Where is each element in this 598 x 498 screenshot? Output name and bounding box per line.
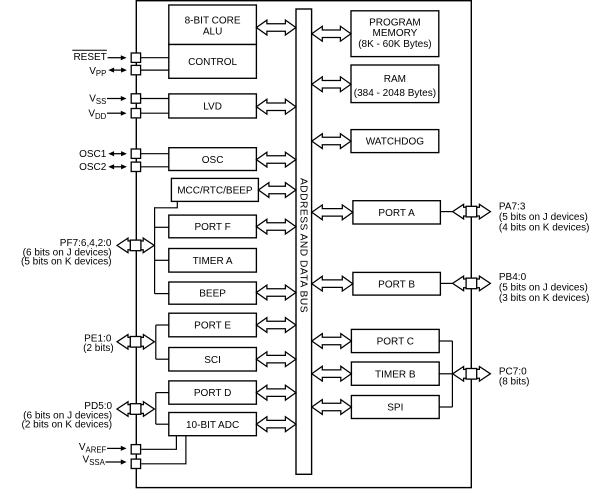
svg-text:(5 bits on J devices): (5 bits on J devices) xyxy=(499,212,588,223)
wire bracket stub to SCI xyxy=(156,358,169,360)
block PORT F xyxy=(169,215,257,238)
svg-text:RAM: RAM xyxy=(384,74,406,85)
pin VSSA xyxy=(131,459,140,468)
block TIMER A xyxy=(169,249,257,273)
wire bracket stub to PORT F xyxy=(155,226,169,228)
block PROGRAM MEMORY xyxy=(351,11,439,57)
wire bracket stub to BEEP xyxy=(155,293,169,295)
wire VPP pin to CONTROL xyxy=(141,69,169,71)
pin arrow PE1:0 xyxy=(117,335,154,350)
bus arrow PORT C xyxy=(312,334,352,349)
wire PORT A to PA pin arrow xyxy=(440,211,453,213)
svg-text:SCI: SCI xyxy=(204,355,221,366)
block OSC xyxy=(169,148,257,171)
block SPI xyxy=(351,396,439,419)
svg-text:PORT E: PORT E xyxy=(194,321,231,332)
bus arrow 10-BIT ADC xyxy=(256,417,296,432)
wire VAREF pin to ADC xyxy=(141,436,176,450)
svg-text:(3 bits on K devices): (3 bits on K devices) xyxy=(499,293,590,304)
label RESET xyxy=(72,50,107,63)
pin arrow PD5:0 xyxy=(117,402,154,417)
pin VSS xyxy=(131,94,140,103)
bus bar ADDRESS AND DATA BUS xyxy=(296,9,312,474)
wire VDD pin to LVD xyxy=(141,112,169,114)
svg-text:MCC/RTC/BEEP: MCC/RTC/BEEP xyxy=(177,186,253,197)
svg-text:LVD: LVD xyxy=(203,102,222,113)
svg-text:SPI: SPI xyxy=(387,402,403,413)
svg-text:PORT B: PORT B xyxy=(378,279,415,290)
svg-text:PORT A: PORT A xyxy=(378,208,415,219)
bus arrow MCC/RTC/BEEP xyxy=(258,183,296,198)
wire RESET pin to CONTROL xyxy=(141,57,169,59)
label PE1:0 xyxy=(83,334,114,354)
svg-text:PA7:3: PA7:3 xyxy=(499,202,526,213)
pin OSC1 xyxy=(131,149,140,158)
pin VDD xyxy=(131,109,140,118)
svg-text:BEEP: BEEP xyxy=(199,289,226,300)
block RAM xyxy=(351,65,439,103)
svg-text:(4 bits on K devices): (4 bits on K devices) xyxy=(499,222,590,233)
bus arrow WATCHDOG xyxy=(312,134,351,149)
svg-text:(5 bits on J devices): (5 bits on J devices) xyxy=(499,283,588,294)
arrow VDD xyxy=(107,112,122,114)
svg-text:ADDRESS AND DATA BUS: ADDRESS AND DATA BUS xyxy=(297,178,308,313)
arrow VSSA xyxy=(106,461,122,463)
svg-text:10-BIT ADC: 10-BIT ADC xyxy=(186,420,239,431)
bus arrow TIMER B xyxy=(312,366,352,381)
wire port C bracket vertical xyxy=(451,341,453,407)
pin VPP xyxy=(131,65,140,74)
svg-text:(2 bits on K devices): (2 bits on K devices) xyxy=(21,420,112,431)
bus arrow PROGRAM MEMORY xyxy=(312,26,351,41)
bus arrow SCI xyxy=(256,352,296,367)
bus arrow SPI xyxy=(312,400,352,415)
wire VSS pin to LVD xyxy=(141,98,169,100)
block TIMER B xyxy=(351,362,439,385)
bus arrow PORT A xyxy=(312,205,353,220)
wire OSC1 pin to OSC xyxy=(141,153,169,155)
wire OSC2 pin to OSC xyxy=(141,166,169,168)
svg-text:PROGRAM: PROGRAM xyxy=(369,18,421,29)
wire bracket stub to TIMER A xyxy=(155,259,169,261)
label PA7:3 xyxy=(499,202,590,234)
svg-text:TIMER A: TIMER A xyxy=(193,256,233,267)
block PORT B xyxy=(353,272,441,295)
svg-text:(8 bits): (8 bits) xyxy=(499,377,530,388)
arrow RESET xyxy=(108,57,122,59)
svg-text:TIMER B: TIMER B xyxy=(375,369,416,380)
bus arrow PORT B xyxy=(312,276,353,291)
svg-text:PORT F: PORT F xyxy=(194,222,230,233)
wire PORT B to PB pin arrow xyxy=(440,282,453,284)
pin VAREF xyxy=(131,445,140,454)
block 8-BIT CORE ALU xyxy=(169,5,257,45)
wire port F bracket vertical xyxy=(154,207,156,293)
svg-text:8-BIT CORE: 8-BIT CORE xyxy=(185,15,241,26)
block PORT D xyxy=(169,381,257,404)
block WATCHDOG xyxy=(351,130,439,153)
svg-text:(5 bits on K devices): (5 bits on K devices) xyxy=(21,257,112,268)
arrow VSS xyxy=(107,98,122,100)
wire bracket stub to PORT E xyxy=(156,324,169,326)
bus arrow OSC xyxy=(256,152,296,167)
svg-text:(2 bits): (2 bits) xyxy=(83,343,114,354)
wire bracket stub to TIMER B xyxy=(439,373,452,375)
block PORT C xyxy=(351,329,439,352)
svg-text:OSC2: OSC2 xyxy=(79,162,107,173)
svg-text:WATCHDOG: WATCHDOG xyxy=(366,137,425,148)
bus arrow PORT F xyxy=(256,219,296,234)
block PORT E xyxy=(169,313,257,337)
bus arrow LVD xyxy=(256,99,296,114)
wire port D bracket vertical xyxy=(155,393,157,425)
label PC7:0 xyxy=(499,366,530,387)
svg-text:RESET: RESET xyxy=(73,52,106,63)
label PB4:0 xyxy=(499,272,590,304)
bus arrow ALU xyxy=(256,20,296,35)
bus arrow PORT D xyxy=(256,385,296,400)
block CONTROL xyxy=(169,45,257,79)
pin OSC2 xyxy=(131,162,140,171)
arrow OSC2 xyxy=(113,166,122,168)
svg-text:PB4:0: PB4:0 xyxy=(499,272,527,283)
wire bracket stub to PORT C xyxy=(439,340,452,342)
block 10-BIT ADC xyxy=(169,413,257,436)
svg-text:CONTROL: CONTROL xyxy=(188,57,237,68)
pin arrow PA7:3 xyxy=(453,204,491,219)
wire bracket stub to SPI xyxy=(439,406,452,408)
bus arrow RAM xyxy=(312,77,351,92)
wire bracket stub to 10-BIT ADC xyxy=(156,423,169,425)
svg-text:PORT C: PORT C xyxy=(377,337,414,348)
arrow VPP xyxy=(113,69,122,71)
bus arrow PORT E xyxy=(256,318,296,333)
svg-text:PORT D: PORT D xyxy=(194,388,231,399)
arrow OSC1 xyxy=(113,153,122,155)
chip outline xyxy=(136,1,471,488)
svg-text:OSC1: OSC1 xyxy=(79,149,107,160)
wire bracket stub to PORT D xyxy=(156,392,169,394)
block PORT A xyxy=(353,201,441,224)
block BEEP xyxy=(169,282,257,304)
svg-text:ALU: ALU xyxy=(203,26,222,37)
pin arrow PB4:0 xyxy=(453,276,491,291)
block LVD xyxy=(169,94,257,118)
pin RESET xyxy=(131,53,140,62)
bus arrow BEEP xyxy=(256,285,296,300)
block SCI xyxy=(169,348,257,372)
arrow VAREF xyxy=(107,447,122,449)
pin arrow PF7:6,4,2:0 xyxy=(117,238,154,253)
label PF7:6,4,2:0 xyxy=(21,238,112,268)
block MCC/RTC/BEEP xyxy=(171,178,258,201)
pin arrow PC7:0 xyxy=(453,367,491,382)
wire port E bracket vertical xyxy=(155,325,157,359)
svg-text:MEMORY: MEMORY xyxy=(372,28,417,39)
label PD5:0 xyxy=(21,401,112,431)
svg-text:(384 - 2048 Bytes): (384 - 2048 Bytes) xyxy=(354,88,436,99)
wire MCC/RTC/BEEP to port F bracket xyxy=(155,201,178,207)
svg-text:OSC: OSC xyxy=(202,155,224,166)
wire VSSA pin to ADC xyxy=(141,436,186,464)
svg-text:(8K - 60K Bytes): (8K - 60K Bytes) xyxy=(358,39,431,50)
